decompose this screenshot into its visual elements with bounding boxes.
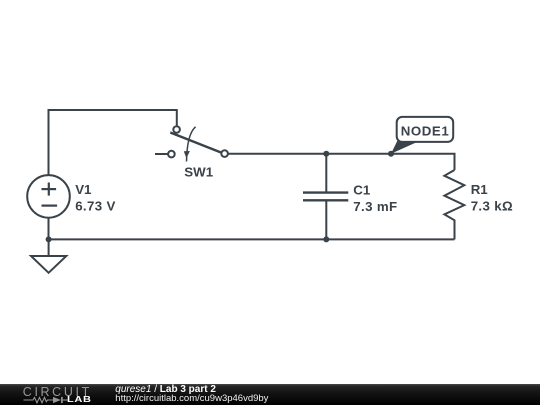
svg-text:R1: R1 <box>471 182 489 197</box>
svg-text:7.3 mF: 7.3 mF <box>353 199 397 214</box>
svg-text:SW1: SW1 <box>184 165 213 180</box>
svg-text:V1: V1 <box>75 182 92 197</box>
svg-text:6.73 V: 6.73 V <box>75 199 116 214</box>
svg-text:7.3 kΩ: 7.3 kΩ <box>471 199 513 214</box>
svg-text:C1: C1 <box>353 182 371 197</box>
svg-text:NODE1: NODE1 <box>401 124 450 139</box>
